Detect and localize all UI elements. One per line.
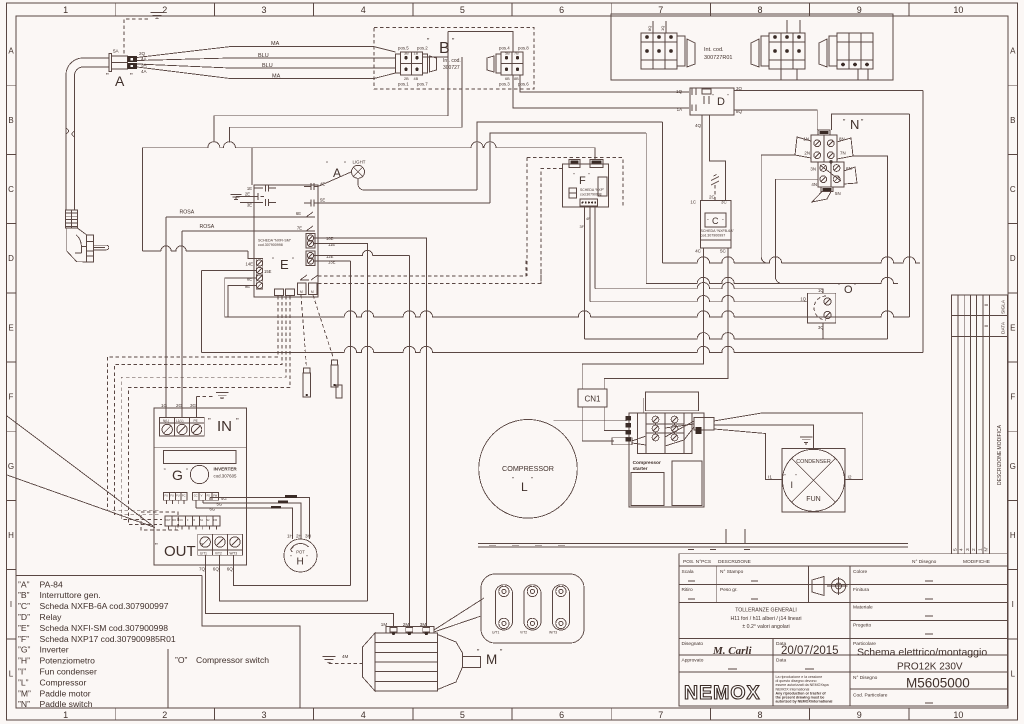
wire D 8Q to N 1N: [734, 110, 817, 130]
dashes above title: [688, 549, 694, 551]
svg-text:”: ”: [344, 162, 346, 168]
svg-text:4Q: 4Q: [695, 123, 702, 128]
svg-text:2M: 2M: [403, 622, 410, 627]
svg-text:FW: FW: [213, 494, 218, 498]
svg-text:6E: 6E: [296, 211, 301, 216]
svg-text:CONDENSER: CONDENSER: [796, 459, 831, 465]
E sensors below (dashed): [301, 295, 307, 368]
svg-text:3G: 3G: [190, 403, 197, 408]
svg-text:Ritiro: Ritiro: [682, 587, 694, 593]
starter left pins: [626, 416, 632, 421]
wire N 7N down to bus: [853, 156, 887, 339]
svg-text:starter: starter: [633, 466, 648, 472]
board F (Scheda NXP17): [563, 164, 609, 207]
inverter connector row 2: [193, 492, 219, 500]
wire D 4Q down to C 1C: [701, 115, 703, 201]
svg-text:”: ”: [130, 72, 133, 81]
E pins 10E-13E: [307, 235, 313, 241]
svg-text:L: L: [521, 480, 528, 494]
title block: [679, 554, 1007, 706]
svg-text:Schema elettrico/montaggio: Schema elettrico/montaggio: [857, 647, 987, 659]
svg-text:PE: PE: [194, 419, 198, 423]
wires to potentiometer: [209, 498, 211, 501]
svg-text:4C: 4C: [695, 249, 702, 254]
starter inlet plug: [612, 438, 632, 445]
svg-text:MA: MA: [271, 41, 280, 47]
svg-text:”N”: ”N”: [18, 699, 30, 709]
terminal block 1: [641, 33, 677, 69]
svg-text:”: ”: [155, 542, 158, 551]
svg-text:14E: 14E: [246, 262, 254, 267]
svg-text:C: C: [712, 216, 719, 226]
svg-text:”: ”: [512, 478, 514, 484]
svg-text:”: ”: [531, 478, 533, 484]
svg-text:4: 4: [361, 710, 366, 720]
bus line 5: [585, 333, 888, 339]
paddle switch detail box: [481, 574, 584, 643]
svg-text:CN1: CN1: [584, 395, 601, 404]
svg-text:± 0.2° valori angolari: ± 0.2° valori angolari: [742, 624, 789, 630]
svg-text:6: 6: [559, 710, 564, 720]
svg-text:4F: 4F: [586, 217, 591, 221]
svg-text:FM: FM: [214, 519, 217, 522]
potentiometer H: [284, 539, 317, 572]
wires inside B: [423, 56, 449, 58]
bus line 6: [201, 346, 922, 352]
svg-text:MA: MA: [272, 74, 281, 80]
svg-text:4N: 4N: [811, 182, 817, 187]
svg-text:A: A: [115, 73, 125, 89]
E pin 5E: [304, 200, 318, 207]
svg-text:Compressor: Compressor: [40, 677, 87, 687]
svg-text:O: O: [844, 284, 853, 296]
svg-text:5B: 5B: [505, 52, 510, 56]
svg-text:Materiale: Materiale: [853, 605, 873, 611]
svg-text:E: E: [8, 323, 13, 332]
parts list strip: [478, 543, 908, 545]
E pins 14E 15E 8E 9E: [256, 260, 262, 266]
E bottom connectors: [275, 289, 284, 296]
svg-text:L: L: [9, 669, 14, 678]
svg-text:5C: 5C: [720, 249, 727, 254]
svg-text:5N: 5N: [835, 191, 841, 196]
svg-text:13E: 13E: [328, 260, 336, 265]
wire CN1 to starter pin: [604, 407, 626, 431]
svg-text:”: ”: [208, 417, 211, 426]
ROSA wires 6E 7E to inverter: [166, 216, 254, 218]
svg-text:1E: 1E: [247, 186, 252, 191]
15E wire: [201, 270, 256, 272]
svg-text:Scheda NXP17 cod.307900985R01: Scheda NXP17 cod.307900985R01: [40, 634, 176, 644]
svg-text:D: D: [1010, 254, 1016, 263]
svg-text:”O”: ”O”: [175, 655, 188, 665]
relay D: [690, 88, 734, 115]
wire 5E right: [318, 202, 490, 204]
B left contact block: [401, 52, 423, 75]
ground above plug: [124, 19, 150, 54]
svg-text:FU: FU: [165, 494, 169, 498]
svg-text:”I”: ”I”: [18, 667, 26, 677]
svg-text:4M: 4M: [342, 654, 349, 659]
svg-text:8B: 8B: [514, 77, 519, 81]
svg-text:M: M: [486, 652, 497, 667]
OUT wires: [205, 555, 207, 570]
wire N 4N down: [776, 179, 819, 277]
svg-text:7: 7: [658, 5, 663, 15]
wire F to bus5: [584, 206, 586, 339]
svg-text:4: 4: [959, 548, 965, 551]
E pin 3E: [240, 199, 276, 206]
svg-text:SCHEDA “NXFB-6A”: SCHEDA “NXFB-6A”: [701, 229, 735, 233]
svg-text:2N: 2N: [804, 151, 810, 156]
svg-text:5G: 5G: [217, 501, 223, 506]
svg-text:Progetto: Progetto: [853, 623, 871, 629]
bus line 1: [662, 257, 920, 263]
svg-text:”: ”: [292, 258, 294, 264]
svg-text:N: N: [850, 117, 859, 132]
svg-text:CC: CC: [194, 494, 198, 498]
svg-text:pos.3: pos.3: [499, 82, 510, 87]
svg-text:10: 10: [953, 5, 963, 15]
svg-text:8: 8: [757, 5, 762, 15]
14E wire: [142, 246, 248, 251]
svg-text:INVERTER: INVERTER: [214, 467, 238, 472]
svg-text:3: 3: [261, 710, 266, 720]
svg-text:BLU: BLU: [258, 53, 269, 59]
ground at fan: [800, 437, 813, 443]
svg-text:W/T3: W/T3: [549, 631, 557, 635]
svg-text:I: I: [10, 600, 12, 609]
svg-text:1Q: 1Q: [800, 297, 806, 302]
svg-text:TOLLERANZE GENERALI: TOLLERANZE GENERALI: [735, 608, 797, 614]
svg-text:G: G: [8, 462, 14, 471]
svg-text:R: R: [194, 519, 196, 522]
wire D to C 3C: [710, 115, 726, 201]
svg-text:Paddle motor: Paddle motor: [40, 688, 91, 698]
svg-text:B: B: [1010, 116, 1015, 125]
inverter display: [164, 450, 236, 463]
svg-text:IN: IN: [217, 418, 232, 435]
starter top cover: [646, 392, 699, 411]
E pin 2E + ground: [231, 195, 242, 200]
svg-text:cod.307605: cod.307605: [214, 474, 238, 479]
bus line 3b: [595, 283, 823, 289]
svg-text:FC: FC: [182, 494, 186, 498]
wire F to bus3: [589, 206, 591, 302]
svg-text:3: 3: [965, 548, 971, 551]
svg-text:U/T1: U/T1: [492, 631, 499, 635]
svg-text:SCHEDA “NXP”: SCHEDA “NXP”: [580, 188, 604, 192]
svg-text:D: D: [8, 254, 14, 263]
svg-text:OUT: OUT: [166, 519, 172, 522]
svg-text:BLU: BLU: [262, 63, 273, 69]
inverter connector row 1: [164, 492, 187, 500]
svg-text:pos.5: pos.5: [398, 46, 409, 51]
svg-text:H: H: [8, 531, 14, 540]
svg-text:11E: 11E: [328, 242, 335, 247]
svg-text:cod.307900998: cod.307900998: [258, 243, 283, 247]
svg-text:8Q: 8Q: [647, 26, 652, 31]
svg-text:3B: 3B: [404, 52, 409, 56]
svg-text:Scala: Scala: [682, 569, 694, 575]
svg-text:”: ”: [186, 469, 188, 475]
svg-text:8: 8: [757, 710, 762, 720]
svg-text:ROSA: ROSA: [200, 224, 215, 230]
paddle motor M: [363, 633, 376, 691]
svg-text:U/T1: U/T1: [200, 552, 207, 556]
svg-text:N° Stampo: N° Stampo: [720, 569, 744, 575]
svg-text:M: M: [311, 290, 314, 294]
E pin 4E: [304, 183, 318, 190]
svg-text:4G: 4G: [221, 496, 227, 501]
svg-text:E: E: [280, 257, 289, 272]
svg-text:Colore: Colore: [853, 569, 867, 575]
board E (Scheda NXFI-SM): [254, 185, 318, 297]
svg-text:”B”: ”B”: [18, 590, 30, 600]
svg-text:F: F: [1010, 393, 1015, 402]
svg-text:Fun condenser: Fun condenser: [40, 667, 97, 677]
wire trunk2: [490, 133, 646, 203]
svg-text:1A: 1A: [677, 107, 682, 112]
svg-text:15E: 15E: [264, 269, 272, 274]
svg-text:7B: 7B: [514, 52, 519, 56]
svg-text:”: ”: [838, 284, 840, 290]
wall plug pictorial: [65, 210, 77, 228]
F top wire: [594, 148, 596, 160]
svg-text:NEMOX: NEMOX: [684, 682, 761, 704]
svg-text:7N: 7N: [840, 151, 846, 156]
svg-text:autorized by NEMOXinternationa: autorized by NEMOXinternational: [776, 700, 833, 704]
wire CN1 to starter plug: [582, 407, 614, 441]
motor terminals: [386, 627, 434, 634]
wire 5G to 2H: [203, 503, 301, 539]
svg-text:Finitura: Finitura: [853, 587, 869, 593]
svg-text:N°: N°: [984, 546, 989, 551]
svg-text:3N: 3N: [810, 167, 816, 172]
wire 13E: [318, 260, 350, 262]
svg-text:2: 2: [971, 548, 977, 551]
svg-text:”: ”: [326, 162, 328, 168]
terminal block 3: [837, 33, 873, 69]
svg-text:H11 fori / h11 alberi / j14 li: H11 fori / h11 alberi / j14 lineari: [730, 616, 801, 622]
svg-text:FU: FU: [170, 494, 174, 498]
svg-text:PA-84: PA-84: [40, 579, 63, 589]
svg-text:5A: 5A: [113, 49, 120, 54]
svg-text:5: 5: [953, 548, 959, 551]
O box left line: [167, 649, 169, 708]
svg-text:3H: 3H: [305, 534, 311, 539]
svg-text:Compressor switch: Compressor switch: [196, 655, 269, 665]
svg-text:4: 4: [361, 5, 366, 15]
terminal block 2: [769, 33, 805, 69]
svg-text:V/T2: V/T2: [215, 552, 222, 556]
wire to fan top: [714, 425, 814, 449]
wire B to relay 1Q: [520, 75, 689, 92]
svg-text:1: 1: [63, 710, 68, 720]
line to E top: [251, 148, 253, 185]
IN terminal strip: [160, 418, 205, 436]
wire 13E down: [349, 261, 351, 586]
svg-text:300727: 300727: [443, 65, 460, 71]
svg-text:SCHEDA “NXFI-SM”: SCHEDA “NXFI-SM”: [258, 239, 292, 243]
modification table: [952, 295, 1008, 554]
F dashed box: [527, 158, 623, 207]
svg-text:”: ”: [236, 417, 239, 426]
C dashed sensor line: [714, 185, 716, 201]
svg-text:6G: 6G: [210, 507, 216, 512]
E pin 1E: [254, 185, 276, 192]
svg-text:Int. cod.: Int. cod.: [443, 58, 461, 64]
svg-text:Cod. Particolare: Cod. Particolare: [853, 693, 888, 699]
svg-text:Interruttore gen.: Interruttore gen.: [40, 590, 101, 600]
main switch B dashed box: [374, 28, 534, 90]
B right contact block: [501, 52, 523, 75]
svg-text:1Q: 1Q: [660, 26, 665, 31]
svg-text:8E: 8E: [247, 277, 252, 282]
svg-text:2B: 2B: [404, 77, 409, 81]
harness line with humps: [142, 142, 595, 148]
wire to I2: [714, 413, 863, 480]
svg-text:DESCRIZIONE: DESCRIZIONE: [718, 559, 751, 565]
15E down to bus6: [200, 271, 202, 353]
svg-text:3F: 3F: [580, 225, 585, 229]
svg-text:W/T3: W/T3: [230, 552, 238, 556]
svg-text:C: C: [1010, 185, 1016, 194]
svg-text:”M”: ”M”: [18, 688, 31, 698]
svg-text:12E: 12E: [326, 254, 334, 259]
E dashed wires right (to relays K): [318, 260, 526, 276]
svg-text:ROSA: ROSA: [180, 210, 195, 216]
wire N 8N up and right: [832, 114, 910, 130]
svg-text:”: ”: [106, 72, 109, 81]
svg-text:”D”: ”D”: [18, 612, 30, 622]
svg-text:2H: 2H: [296, 534, 302, 539]
terminal box Int.cod.300727R01: [611, 14, 893, 80]
svg-text:”: ”: [854, 284, 856, 290]
svg-text:1Q: 1Q: [676, 89, 682, 94]
svg-text:Inverter: Inverter: [40, 645, 69, 655]
svg-text:4A: 4A: [141, 69, 148, 74]
svg-text:L: L: [1011, 669, 1016, 678]
svg-text:E: E: [1010, 323, 1015, 332]
svg-text:C: C: [8, 185, 14, 194]
svg-text:H: H: [1010, 531, 1016, 540]
starter diagonals: [665, 421, 694, 437]
svg-text:CC: CC: [180, 519, 184, 522]
svg-text:FS: FS: [207, 494, 211, 498]
bus line 3: [590, 296, 808, 302]
svg-text:V/T2: V/T2: [520, 631, 527, 635]
svg-text:3E: 3E: [247, 203, 252, 208]
bus line 4: [225, 311, 910, 317]
svg-text:MODIFICHE: MODIFICHE: [963, 559, 990, 565]
svg-text:3M: 3M: [420, 622, 427, 627]
svg-text:300727R01: 300727R01: [704, 55, 732, 61]
wire 12E: [318, 250, 409, 255]
svg-text:D: D: [717, 96, 725, 108]
leader lines to switch detail: [434, 598, 484, 630]
svg-text:”G”: ”G”: [18, 645, 31, 655]
svg-text:pos.1: pos.1: [398, 82, 409, 87]
svg-text:3Q: 3Q: [818, 325, 824, 330]
svg-text:G: G: [172, 467, 183, 483]
svg-text:M: M: [300, 290, 303, 294]
svg-text:1B: 1B: [414, 52, 419, 56]
svg-text:F: F: [579, 175, 586, 187]
svg-text:6B: 6B: [505, 77, 510, 81]
leader diagonals: [7, 416, 153, 526]
svg-text:LIGHT: LIGHT: [353, 160, 366, 165]
wire 4G to 3H: [210, 498, 310, 540]
svg-text:5: 5: [460, 710, 465, 720]
svg-text:POS. N°PCS: POS. N°PCS: [683, 559, 711, 565]
svg-text:N(L): N(L): [163, 419, 169, 423]
svg-text:Potenziometro: Potenziometro: [40, 656, 96, 666]
projection symbol: [812, 577, 824, 596]
svg-text:7: 7: [658, 710, 663, 720]
svg-text:Paddle switch: Paddle switch: [40, 699, 93, 709]
wire 7G to motor 1M: [206, 570, 394, 627]
legend separator: [16, 575, 202, 577]
svg-text:10E: 10E: [326, 236, 334, 241]
svg-text:pos.2: pos.2: [417, 46, 428, 51]
bus line 2: [646, 277, 898, 283]
svg-text:pos.4: pos.4: [499, 46, 510, 51]
svg-text:”: ”: [272, 258, 274, 264]
inverter G: [154, 408, 246, 565]
svg-text:POT: POT: [296, 550, 305, 555]
svg-text:5E: 5E: [320, 198, 325, 203]
svg-text:DESCRIZIONE MODIFICA: DESCRIZIONE MODIFICA: [997, 424, 1003, 485]
svg-text:”E”: ”E”: [18, 623, 30, 633]
8E 9E wires: [225, 278, 257, 317]
svg-text:Approvato: Approvato: [682, 658, 704, 664]
svg-text:Disegnato: Disegnato: [682, 641, 704, 647]
connector CN1: [578, 389, 607, 407]
svg-text:PRO12K 230V: PRO12K 230V: [897, 662, 963, 673]
svg-text:M. Carli: M. Carli: [712, 645, 752, 657]
svg-text:Relay: Relay: [40, 612, 63, 622]
svg-text:M5605000: M5605000: [906, 676, 970, 691]
wire B to relay 1A: [513, 75, 689, 108]
svg-text:A: A: [8, 47, 14, 56]
svg-text:3C: 3C: [721, 200, 727, 205]
svg-text:”A”: ”A”: [18, 579, 30, 589]
OUT terminal strip: [198, 534, 243, 555]
compressor L: [479, 420, 578, 519]
wire lamp trunk up right: [477, 122, 662, 190]
board C (Scheda NXFB-6A): [701, 201, 732, 249]
wire 11E down: [318, 244, 368, 601]
svg-text:Compressor: Compressor: [633, 460, 661, 466]
svg-text:B: B: [8, 116, 13, 125]
wire 4E to lamp: [318, 172, 352, 187]
svg-text:Scheda NXFB-6A cod.307900997: Scheda NXFB-6A cod.307900997: [40, 601, 169, 611]
svg-text:Int. cod.: Int. cod.: [704, 47, 724, 53]
svg-text:G: G: [1010, 462, 1016, 471]
svg-text:DATA: DATA: [1001, 321, 1007, 334]
svg-text:2G: 2G: [176, 403, 183, 408]
svg-text:N° Disegno: N° Disegno: [912, 559, 937, 565]
wire D 3Q to right trunk: [734, 90, 923, 92]
svg-text:SIGLA: SIGLA: [1001, 299, 1007, 314]
svg-text:”: ”: [164, 469, 166, 475]
svg-text:I2: I2: [848, 475, 852, 481]
svg-text:A: A: [1010, 47, 1016, 56]
svg-text:2: 2: [162, 710, 167, 720]
svg-text:1G: 1G: [161, 403, 168, 408]
svg-text:”L”: ”L”: [18, 677, 29, 687]
